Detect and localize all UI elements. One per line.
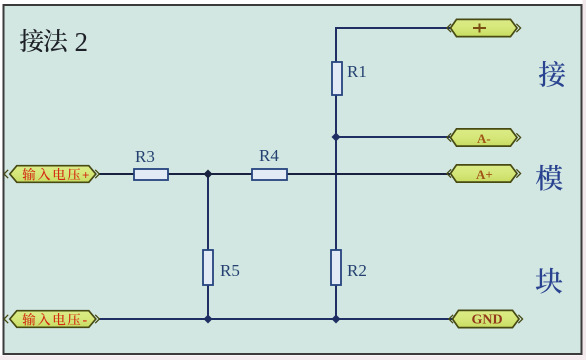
title 接法 2 — [20, 27, 88, 57]
right margin text 模 — [536, 165, 563, 191]
port A+ hexagon — [451, 165, 518, 182]
wire: top wire from R1 branch to + port — [336, 27, 450, 29]
svg-text:+: + — [82, 168, 89, 183]
svg-text:R1: R1 — [347, 62, 367, 81]
resistor R5 body — [203, 250, 213, 285]
svg-text:R3: R3 — [135, 147, 155, 166]
resistor R1 body — [332, 62, 342, 95]
svg-text:A-: A- — [477, 131, 491, 146]
svg-text:R5: R5 — [220, 261, 240, 280]
wire: bottom wire from input- to GND — [99, 318, 452, 320]
svg-text:R4: R4 — [259, 146, 279, 165]
port + hexagon — [451, 19, 518, 36]
port 输入电压+ text — [22, 168, 89, 183]
port 输入电压+ hexagon — [10, 166, 96, 183]
svg-text:2: 2 — [75, 27, 89, 57]
port A- hexagon — [451, 129, 518, 146]
right margin text 块 — [536, 268, 563, 294]
right margin text 接 — [539, 61, 565, 87]
wire: vertical branch through R1 and R2 — [335, 27, 337, 319]
resistor R4 body — [252, 169, 287, 180]
svg-text:A+: A+ — [476, 167, 493, 182]
wire: main horizontal wire from input+ to A+ — [99, 173, 450, 175]
port 输入电压- text — [22, 313, 87, 328]
wire: vertical branch through R5 — [207, 174, 209, 319]
port 输入电压- hexagon — [10, 311, 96, 328]
junction: R3/R4/R5 node on main wire — [204, 170, 213, 179]
junction: R1/R2/A- node — [332, 133, 341, 142]
port GND hexagon — [453, 310, 520, 327]
junction: R2 to bottom wire — [332, 315, 341, 324]
resistor R3 body — [134, 169, 168, 180]
resistor R2 body — [331, 250, 341, 285]
svg-text:-: - — [83, 313, 88, 328]
wire: A- tap wire — [336, 136, 450, 138]
port + text plus sign — [473, 24, 486, 33]
svg-text:GND: GND — [472, 312, 503, 327]
svg-text:R2: R2 — [347, 261, 367, 280]
junction: R5 to bottom wire — [204, 315, 213, 324]
